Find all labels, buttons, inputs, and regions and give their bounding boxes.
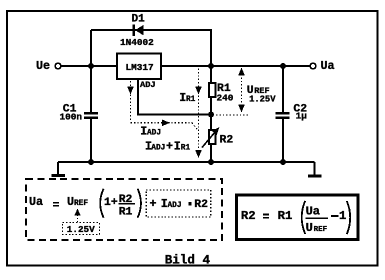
svg-text:+: + <box>166 140 173 154</box>
svg-text:D1: D1 <box>132 14 146 26</box>
svg-text:1µ: 1µ <box>296 111 308 122</box>
svg-text:1N4002: 1N4002 <box>120 37 154 48</box>
svg-text:1.25V: 1.25V <box>249 95 276 105</box>
svg-text:1+: 1+ <box>104 197 118 209</box>
svg-text:REF: REF <box>314 226 328 234</box>
svg-text:1: 1 <box>339 209 346 223</box>
svg-text:U: U <box>306 221 313 235</box>
svg-text:R2: R2 <box>241 209 256 223</box>
svg-text:ADJ: ADJ <box>168 202 182 210</box>
svg-text:Ua: Ua <box>321 59 335 73</box>
svg-text:100n: 100n <box>60 112 83 123</box>
svg-text:ADJ: ADJ <box>140 80 156 90</box>
svg-text:Ua: Ua <box>29 195 43 209</box>
svg-text:U: U <box>67 195 74 209</box>
svg-text:240: 240 <box>217 93 234 104</box>
svg-text:R1: R1 <box>119 207 133 219</box>
svg-text:R1: R1 <box>181 145 191 153</box>
svg-text:Bild 4: Bild 4 <box>165 254 211 268</box>
svg-text:+: + <box>150 197 157 211</box>
svg-text:1.25V: 1.25V <box>67 224 95 235</box>
svg-text:R2: R2 <box>194 199 208 211</box>
svg-text:R2: R2 <box>220 135 234 147</box>
svg-text:Ue: Ue <box>36 59 50 73</box>
svg-text:R1: R1 <box>186 96 196 104</box>
svg-text:ADJ: ADJ <box>147 130 161 138</box>
svg-text:ADJ: ADJ <box>151 145 165 153</box>
svg-text:I: I <box>174 140 181 154</box>
svg-text:REF: REF <box>74 200 88 208</box>
svg-text:Ua: Ua <box>306 205 320 219</box>
svg-text:LM317: LM317 <box>126 62 154 73</box>
svg-text:R1: R1 <box>278 209 293 223</box>
